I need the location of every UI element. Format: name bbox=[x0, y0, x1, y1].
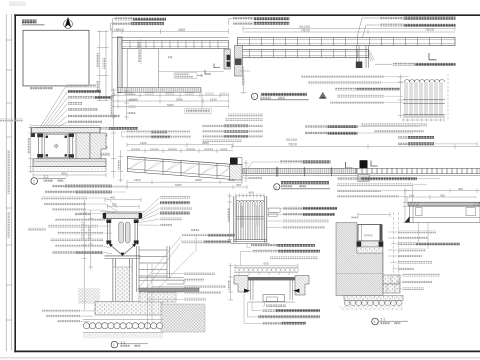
bottom dims bbox=[108, 180, 247, 189]
key plan rectangle bbox=[23, 30, 89, 86]
bench top slab bbox=[408, 202, 480, 206]
dims bbox=[405, 188, 480, 199]
fence mid rails bbox=[403, 99, 445, 101]
svg-text:6300: 6300 bbox=[175, 183, 182, 187]
planting soil hatch left of shaft bbox=[78, 288, 100, 304]
paver row bbox=[234, 268, 299, 275]
plan top pergola beam band bbox=[122, 41, 229, 49]
svg-text:7800: 7800 bbox=[288, 143, 297, 147]
bottom label leaders bbox=[244, 292, 262, 323]
faint soil under gravel bbox=[83, 332, 163, 338]
right mid labels bbox=[184, 272, 215, 275]
coursed wall labels bbox=[182, 234, 208, 237]
band far-left end dim bbox=[244, 160, 249, 182]
fence labels left side bbox=[301, 75, 384, 78]
svg-text:4300: 4300 bbox=[178, 28, 185, 32]
weld triangle bbox=[405, 216, 410, 222]
binding strip tiny vertical text bbox=[8, 150, 10, 194]
svg-text:1500: 1500 bbox=[134, 178, 141, 182]
svg-text:400: 400 bbox=[61, 171, 66, 175]
svg-text:2980: 2980 bbox=[176, 97, 183, 101]
LED box bbox=[263, 295, 285, 302]
bedding stipple row under planter bbox=[357, 247, 383, 253]
plan top label row 1 bbox=[114, 17, 133, 20]
left dim ticks bbox=[403, 189, 408, 224]
label leaders bbox=[388, 232, 402, 289]
svg-text:1820: 1820 bbox=[210, 97, 217, 101]
label fan rows bbox=[66, 85, 96, 88]
footing blocks right bbox=[383, 275, 400, 293]
left dim columns bbox=[82, 200, 93, 310]
left post bbox=[38, 133, 40, 159]
planter box bbox=[358, 225, 382, 242]
left label rows (upper fan) bbox=[52, 185, 65, 188]
bottom-left labels bbox=[42, 310, 80, 313]
mid rails bbox=[236, 216, 264, 218]
rail panels with diagonals bbox=[128, 160, 232, 176]
bottom leader label bbox=[247, 243, 251, 247]
section 4 title bbox=[372, 318, 379, 325]
svg-text:4250: 4250 bbox=[202, 141, 209, 145]
svg-text:7800: 7800 bbox=[301, 29, 310, 33]
long handrail labels pointing left bbox=[122, 131, 192, 139]
svg-text:3: 3 bbox=[33, 180, 35, 184]
side posts bbox=[233, 196, 235, 243]
fence dashed right edge bbox=[447, 74, 449, 120]
glass panel with fixings bbox=[45, 135, 69, 158]
far-left cut label bbox=[0, 119, 23, 122]
shaded wide slats bbox=[240, 206, 244, 228]
vertical level dims between 2-2 and sloped rail bbox=[111, 88, 129, 178]
svg-text:1: 1 bbox=[113, 343, 115, 347]
key plan title bbox=[22, 20, 37, 24]
right post bbox=[69, 133, 71, 159]
plan left dimension columns bbox=[97, 30, 109, 101]
band left segment (dense) bbox=[243, 168, 356, 173]
side plates bbox=[108, 219, 138, 246]
fan leader lines bbox=[40, 86, 68, 128]
right-side labels of 2-2 bbox=[95, 127, 109, 130]
left dim bbox=[228, 193, 233, 243]
corner bracket symbols in plan bbox=[205, 70, 211, 74]
planting soil small label bbox=[28, 228, 46, 231]
segment dimension 7800 bbox=[243, 30, 455, 34]
left label rows (lower) bbox=[55, 245, 103, 248]
right end block bbox=[230, 165, 243, 181]
plan inner wall lines bbox=[126, 49, 128, 88]
svg-text:400: 400 bbox=[110, 196, 115, 200]
svg-text:350: 350 bbox=[112, 202, 117, 206]
fence3 long dim 20000/7800 bbox=[232, 138, 480, 149]
planter wall vertical continuation bbox=[382, 247, 384, 275]
svg-text:FA: FA bbox=[168, 56, 173, 60]
leaders from labels to detail bbox=[104, 246, 113, 254]
foundation stipple band bbox=[344, 296, 403, 301]
plan right wall column (hatched, dark cells) bbox=[224, 49, 230, 69]
fence labels below bbox=[361, 123, 427, 126]
fence bottom tick row bbox=[402, 118, 444, 121]
title 1-1 bbox=[111, 341, 118, 348]
svg-text:6300: 6300 bbox=[167, 103, 174, 107]
sub-base dashed band bbox=[33, 167, 106, 172]
plan top dimension line bbox=[112, 29, 229, 35]
mid post ticks bbox=[276, 167, 278, 177]
left dim column bbox=[29, 124, 34, 173]
top-left labels bbox=[337, 177, 361, 180]
middle column with footing bbox=[356, 46, 374, 69]
page bottom gray edge line bbox=[0, 357, 480, 359]
left end column of beam elevation bbox=[235, 46, 243, 77]
gravel stone row bbox=[83, 323, 162, 329]
bottom dim of 2-2 bbox=[33, 173, 106, 177]
svg-text:1: 1 bbox=[253, 95, 255, 99]
note text F.L bbox=[30, 87, 53, 90]
left dim bbox=[228, 263, 233, 300]
scallops bbox=[236, 200, 264, 202]
core rods bbox=[119, 222, 124, 243]
bottom labels bbox=[262, 309, 276, 312]
центральные leader verticals bbox=[148, 264, 184, 330]
inner verticals bbox=[251, 280, 293, 300]
bottom line of bench bbox=[248, 301, 295, 303]
post pedestal bbox=[358, 175, 369, 181]
plan bottom dim row 2 bbox=[112, 99, 229, 103]
svg-text:1420: 1420 bbox=[228, 178, 235, 182]
mid column label bbox=[393, 63, 414, 66]
top dims bbox=[127, 143, 233, 153]
long dashed leader verticals bbox=[394, 212, 429, 282]
section 2-2 title bbox=[31, 178, 38, 185]
post shaft bbox=[113, 259, 132, 311]
beam band lower bbox=[238, 50, 369, 58]
right connector boxes bbox=[269, 208, 281, 212]
black anchor arrows bbox=[244, 289, 250, 293]
foundation stipple band bbox=[95, 302, 162, 316]
svg-text:1500: 1500 bbox=[140, 141, 147, 145]
fence left dim ticks bbox=[398, 75, 404, 119]
black post on band bbox=[360, 160, 368, 168]
svg-text:2-2: 2-2 bbox=[381, 317, 386, 321]
fence slats bbox=[405, 82, 442, 116]
post cap bbox=[100, 211, 145, 213]
rail top chords bbox=[127, 156, 233, 164]
north arrow bbox=[64, 17, 73, 29]
fence3 upper labels bbox=[305, 125, 420, 135]
right labels bbox=[283, 207, 303, 210]
svg-text:400: 400 bbox=[236, 183, 241, 187]
svg-text:4: 4 bbox=[373, 320, 375, 324]
top dim bbox=[358, 212, 390, 216]
left hatch block bbox=[234, 276, 248, 293]
svg-text:2980: 2980 bbox=[195, 178, 202, 182]
top label bbox=[252, 250, 278, 253]
plan bottom dim row 1 bbox=[112, 93, 229, 98]
svg-text:7800: 7800 bbox=[425, 28, 434, 32]
band label bbox=[280, 160, 302, 163]
svg-text:100: 100 bbox=[409, 193, 414, 197]
fence scallop tops bbox=[405, 80, 445, 83]
long diagonal leaders bbox=[136, 234, 196, 298]
foundation crosshatch right bbox=[161, 304, 205, 332]
slope note box with arrow bbox=[174, 73, 203, 78]
beam labels right pair bbox=[380, 17, 403, 20]
plan left wall (hatched) bbox=[117, 37, 122, 93]
rail panel marks bbox=[131, 160, 230, 175]
planter bottom hatch band bbox=[357, 241, 383, 247]
right upper labels bbox=[160, 196, 190, 199]
plan top label row 2 bbox=[112, 22, 131, 25]
soil mass hatch bbox=[336, 223, 383, 296]
post base plate bbox=[105, 255, 141, 257]
L bracket left of post bbox=[346, 162, 353, 168]
ledge step bbox=[139, 278, 184, 284]
base band bbox=[33, 159, 106, 167]
stone panel section bbox=[76, 133, 90, 162]
left dims of sloped rail bbox=[118, 150, 123, 182]
stepped stone cladding bbox=[90, 133, 106, 164]
right labels column bbox=[398, 231, 436, 234]
bottom rails bbox=[234, 239, 267, 241]
soil under stones bbox=[340, 306, 403, 311]
slats bbox=[237, 202, 263, 240]
L bracket mark bbox=[429, 53, 437, 60]
anchor marks bbox=[357, 242, 362, 247]
rail bottom chords bbox=[127, 169, 233, 177]
plan outer top edge bbox=[112, 37, 229, 39]
leader lines to labels bbox=[110, 19, 113, 31]
stone row bbox=[344, 300, 402, 305]
coursed planter wall right of post bbox=[137, 246, 170, 292]
beam band upper bbox=[238, 38, 456, 46]
fence bottom rail bbox=[403, 114, 445, 116]
svg-text:2: 2 bbox=[275, 185, 277, 189]
cap beam bbox=[32, 127, 101, 133]
band right segment (pickets) bbox=[356, 168, 480, 173]
steel top plate bbox=[248, 277, 295, 280]
mid-page label column (right of plan) bbox=[202, 114, 263, 142]
plan bottom paving band bbox=[117, 88, 201, 93]
plan inner vertical dim with rotated label bbox=[140, 39, 142, 64]
LED label bbox=[262, 303, 265, 307]
beam labels left pair bbox=[233, 17, 253, 20]
svg-text:600: 600 bbox=[264, 261, 269, 265]
diagonal braces with arrowheads bbox=[110, 245, 135, 256]
grille label under plan bbox=[201, 92, 203, 109]
rail posts bbox=[127, 156, 217, 178]
direction diamond bbox=[319, 92, 326, 98]
left boundary lines of plan bbox=[111, 28, 113, 93]
faint logo top-left bbox=[9, 2, 26, 7]
svg-text:400: 400 bbox=[249, 191, 254, 195]
L bracket right of post bbox=[371, 161, 378, 167]
dark base strip bbox=[139, 288, 199, 292]
svg-text:1580.5: 1580.5 bbox=[114, 28, 124, 32]
band bottom line bbox=[243, 175, 480, 177]
bench body bbox=[410, 206, 480, 222]
svg-text:365: 365 bbox=[440, 193, 445, 197]
right hatch block bbox=[295, 276, 309, 296]
svg-text:400: 400 bbox=[458, 187, 463, 191]
binding strip left bbox=[6, 14, 11, 351]
overall dimension 20000 bbox=[243, 26, 455, 30]
left column drop dim bbox=[240, 67, 250, 94]
svg-text:20000: 20000 bbox=[286, 138, 297, 142]
plan bottom dim row 3 bbox=[112, 104, 229, 108]
left label rows (mid) bbox=[75, 212, 91, 215]
